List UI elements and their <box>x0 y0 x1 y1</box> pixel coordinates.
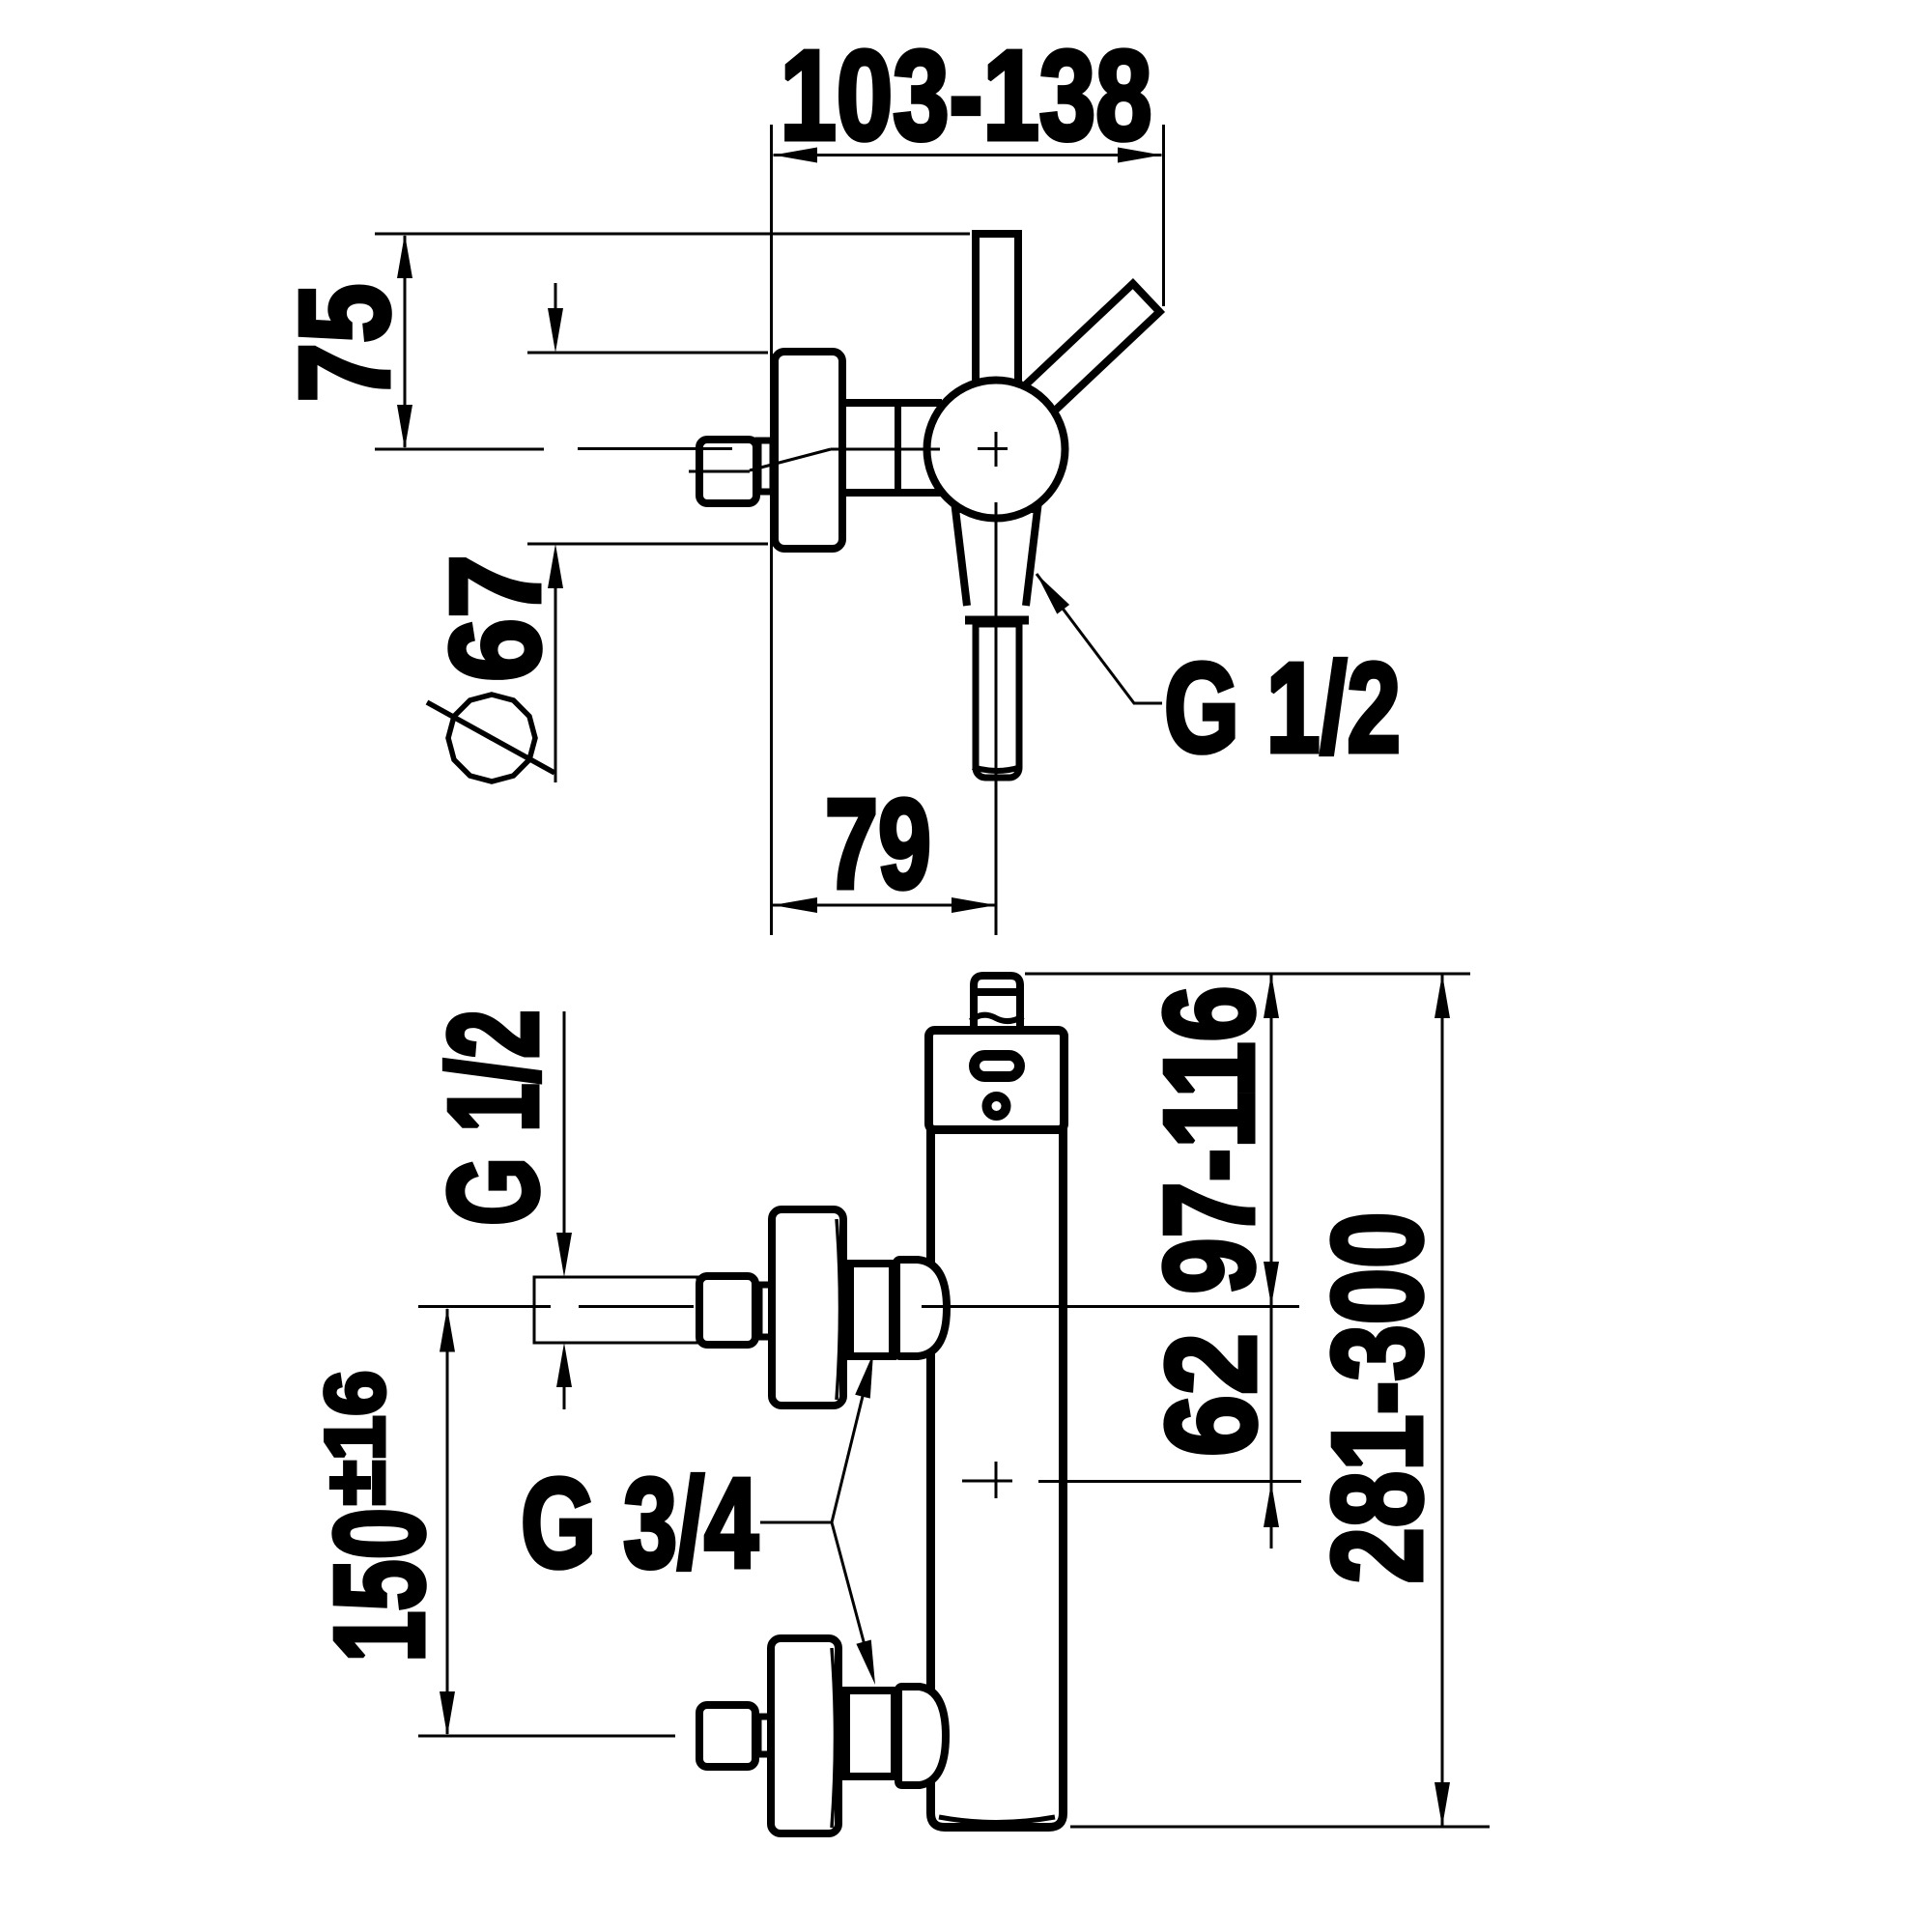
arrowhead 103-138 right <box>1118 148 1162 163</box>
head slot <box>975 1056 1020 1077</box>
extension line left (103-138 / 79) <box>770 125 773 935</box>
center line upper inlet seg1 <box>418 1305 551 1308</box>
dimension line 67 upper segment <box>554 283 557 310</box>
head screw <box>987 1096 1007 1116</box>
arrowhead 75 bottom <box>397 405 412 449</box>
outlet nipple <box>974 976 1020 1026</box>
diameter symbol polygon <box>448 695 535 781</box>
body bottom arc <box>939 1817 1055 1823</box>
lower inlet flange inner arc <box>832 1648 836 1828</box>
arrowhead 75 top <box>397 234 412 278</box>
dimension line 281-300 <box>1441 974 1444 1827</box>
svg-text:97-116: 97-116 <box>1138 986 1280 1294</box>
outlet cone below valve <box>955 509 1037 606</box>
valve body circle <box>927 381 1065 519</box>
svg-text:±16: ±16 <box>309 1371 402 1505</box>
mounting cross vertical <box>995 1462 998 1498</box>
arrowhead 103-138 left <box>774 148 818 163</box>
upper inlet thread stub <box>759 1285 774 1337</box>
dimension line G 1/2 lower segment <box>563 1385 566 1409</box>
eccentric axis diagonal <box>750 449 831 470</box>
svg-text:G 1/2: G 1/2 <box>1164 637 1401 779</box>
outlet pipe end arc <box>973 767 1021 771</box>
arrowhead 150 top <box>440 1308 455 1352</box>
svg-text:150: 150 <box>308 1508 450 1662</box>
handle lever vertical <box>976 234 1018 396</box>
upper inlet union nut <box>850 1264 893 1356</box>
dimension line 103-138 <box>774 154 1162 156</box>
dimension line 75 <box>404 236 407 447</box>
svg-text:103-138: 103-138 <box>781 24 1152 166</box>
outlet pipe <box>976 624 1019 778</box>
center line lower inlet <box>418 1735 675 1738</box>
connector neck bottom line <box>846 489 942 497</box>
leader arrowhead G 1/2 <box>1037 574 1069 614</box>
connector neck divider <box>895 399 901 497</box>
mounting cross extension line <box>1038 1480 1301 1483</box>
upper inlet flange inner arc <box>837 1219 840 1400</box>
dimension line 62 <box>1270 1306 1273 1548</box>
extension line top (75) <box>375 233 970 236</box>
arrowhead 67 bottom <box>548 544 563 588</box>
arrowhead 150 bottom <box>440 1691 455 1736</box>
leader G 3/4 upper branch <box>832 1380 867 1522</box>
wall flange <box>775 352 842 549</box>
head block <box>929 1031 1065 1130</box>
arrowhead 62 bottom <box>1264 1483 1279 1527</box>
mounting cross horizontal <box>962 1480 1012 1483</box>
outlet nipple groove <box>974 988 1020 996</box>
dimension line 79 <box>773 904 996 907</box>
upper inlet flange <box>772 1209 843 1406</box>
axis line through nut <box>578 447 732 450</box>
svg-text:G 1/2: G 1/2 <box>422 1009 564 1226</box>
dimension line 97-116 <box>1270 974 1273 1306</box>
arrowhead G 1/2 upper <box>556 1233 572 1277</box>
leader arrowhead G 3/4 lower <box>856 1640 875 1686</box>
svg-text:79: 79 <box>825 773 931 915</box>
arrowhead 79 right <box>952 897 996 913</box>
dimension line G 1/2 upper segment <box>563 1011 566 1235</box>
center line upper inlet seg2 <box>579 1305 694 1308</box>
handle lever diagonal <box>996 284 1159 441</box>
svg-text:G 3/4: G 3/4 <box>521 1452 758 1594</box>
axis line left <box>375 448 544 451</box>
extension line 67 top <box>527 352 768 355</box>
upper inlet nut <box>699 1276 755 1345</box>
axis line to valve <box>831 448 940 451</box>
dimension line 67 lower segment <box>554 586 557 782</box>
arrowhead 79 left <box>773 897 817 913</box>
arrowhead 97-116 top <box>1264 974 1279 1018</box>
lower inlet thread stub <box>758 1717 772 1754</box>
outlet nipple thread wave <box>971 1015 1023 1021</box>
outlet collar <box>965 616 1029 625</box>
lower inlet wall nut <box>699 1705 755 1767</box>
center cross vertical <box>995 432 998 467</box>
thread stub left <box>758 440 773 492</box>
body column <box>931 1129 1064 1828</box>
center cross horizontal <box>978 447 1008 450</box>
svg-text:281-300: 281-300 <box>1306 1212 1448 1584</box>
leader G 3/4 horizontal <box>760 1521 832 1524</box>
wall nut <box>699 440 756 503</box>
leader G 3/4 lower branch <box>832 1522 868 1660</box>
center line upper inlet seg3 <box>922 1305 1299 1308</box>
diameter symbol slash <box>427 702 554 773</box>
extension line 67 bottom <box>527 543 768 546</box>
dimension line 150 <box>446 1309 449 1734</box>
svg-text:67: 67 <box>424 554 566 682</box>
lower inlet flange <box>771 1638 838 1833</box>
arrowhead 281-300 bottom <box>1435 1782 1450 1827</box>
arrowhead 281-300 top <box>1435 974 1450 1018</box>
connector neck <box>850 407 942 489</box>
upper inlet dome <box>896 1260 947 1356</box>
leader G 1/2 top view <box>1037 574 1162 703</box>
center line below valve <box>995 502 998 935</box>
arrowhead G 1/2 lower <box>556 1343 572 1387</box>
arrowhead 97-116 bottom <box>1264 1262 1279 1306</box>
supply pipe upper inlet <box>534 1277 697 1343</box>
connector neck top line <box>846 399 942 407</box>
svg-text:62: 62 <box>1140 1333 1282 1457</box>
extension line right (103-138) <box>1162 125 1165 306</box>
lower inlet union nut <box>846 1690 895 1776</box>
wall axis tick <box>689 470 750 473</box>
svg-text:75: 75 <box>273 284 415 403</box>
leader arrowhead G 3/4 upper <box>855 1353 873 1399</box>
extension line top (97-116 / 281-300) <box>1025 973 1470 976</box>
lower inlet dome <box>898 1687 946 1785</box>
extension line bottom (281-300) <box>1070 1826 1490 1829</box>
arrowhead 67 top <box>548 308 563 353</box>
